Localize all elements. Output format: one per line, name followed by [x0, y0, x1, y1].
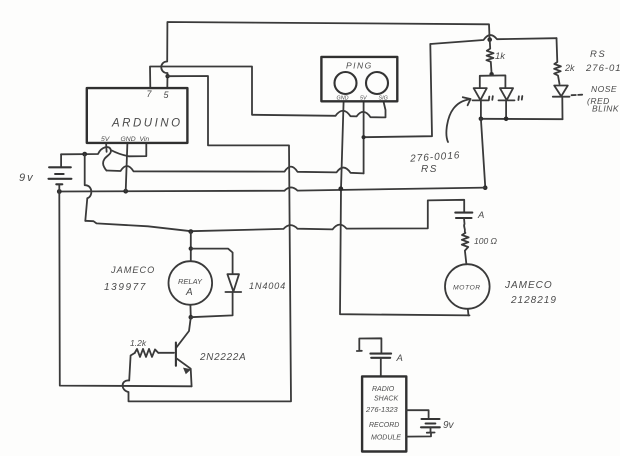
svg-text:NOSE: NOSE [591, 84, 617, 94]
wire: record module antenna stub bracket [357, 338, 382, 352]
svg-text:A: A [396, 353, 403, 364]
svg-text:JAMECO: JAMECO [504, 280, 553, 291]
svg-text:100 Ω: 100 Ω [474, 236, 498, 246]
node: relay/diode top dot [189, 246, 193, 250]
svg-text:RELAY: RELAY [178, 277, 203, 286]
wire: battery plus branch down with hop loop to relay feed rail [85, 154, 92, 221]
svg-text:BLINK: BLINK [592, 104, 619, 114]
wire: pin5 stub right-down-around to 1.2k resistor (base drive) [123, 76, 291, 401]
node: pin5 junction dot [165, 74, 169, 78]
svg-text:JAMECO: JAMECO [110, 265, 155, 275]
svg-text:SIG: SIG [379, 96, 388, 102]
capacitor C2 A (module) [370, 354, 391, 358]
node: cathode bus dots [479, 117, 484, 122]
svg-text:RS: RS [590, 49, 606, 60]
diode D4 1N4004 [225, 274, 241, 292]
relay feed rail across to motor cap corner [85, 200, 464, 231]
svg-text:276-1323: 276-1323 [365, 405, 399, 414]
5V rail (battery plus net) [107, 166, 364, 173]
resistor R4 100 ohm [462, 233, 469, 264]
wire: upper rail to 1k and 2k with hop loop [430, 35, 556, 44]
svg-text:1N4004: 1N4004 [249, 281, 286, 291]
svg-text:A: A [477, 210, 484, 221]
svg-text:2128219: 2128219 [510, 295, 557, 306]
svg-text:RADIO: RADIO [372, 386, 395, 393]
svg-text:1k: 1k [495, 51, 506, 62]
wire: relay top feed [190, 232, 192, 262]
wire: Arduino pin 7 across and down to PING SIG [150, 67, 386, 118]
svg-text:2k: 2k [564, 63, 575, 73]
label: D2 tick marks [518, 96, 522, 100]
wire: module bottom to battery minus [406, 433, 431, 437]
wire: PING 5V pin lead and node [364, 44, 432, 173]
svg-text:9v: 9v [443, 420, 455, 431]
svg-text:139977: 139977 [104, 282, 147, 293]
svg-text:A: A [185, 287, 193, 298]
motor M1 circle [445, 264, 490, 309]
resistor R1 1k [486, 40, 493, 74]
wire: Arduino GND pin lead down to ground rail [126, 143, 128, 191]
relay K1 circle [169, 261, 213, 305]
svg-text:GND: GND [337, 96, 349, 102]
node: ground rail right end blob [483, 185, 488, 190]
Arduino U1 box [87, 88, 188, 143]
resistor R2 2k [554, 38, 561, 84]
capacitor C1 A (motor) [455, 213, 472, 218]
node: battery minus dot [57, 189, 62, 194]
PING right eye circle [366, 72, 388, 94]
svg-text:SHACK: SHACK [374, 396, 398, 403]
wire: motor bottom lead [467, 309, 470, 316]
PING box [321, 57, 397, 101]
node: battery plus dot [82, 152, 87, 157]
wire: LED cathode bus [481, 118, 563, 120]
svg-text:Vin: Vin [140, 136, 150, 143]
wire: Arduino Vin pin lead [129, 143, 147, 156]
LED D1 (276-0016) [473, 88, 489, 119]
svg-text:5V: 5V [101, 136, 111, 143]
wire: Arduino pin 5 up to top rail, across, down to 1k rail [161, 22, 489, 88]
wire: top bar over to 1N4004 [191, 249, 233, 274]
svg-text:2N2222A: 2N2222A [199, 352, 246, 363]
annotation arrow to D1 [446, 99, 470, 142]
resistor R3 1.2k [135, 349, 159, 357]
node: 1k bottom junction dot [489, 72, 493, 76]
node: PING GND dot [338, 186, 343, 191]
svg-text:ARDUINO: ARDUINO [111, 118, 183, 130]
svg-text:1.2k: 1.2k [130, 338, 147, 348]
node: rail/1k junction blob [487, 37, 492, 42]
battery B2 9V [422, 418, 440, 420]
svg-text:MODULE: MODULE [371, 435, 401, 442]
PING left eye circle [335, 72, 357, 94]
wire: battery plus top wire and join blob [61, 147, 129, 171]
LED D3 nose [553, 86, 570, 120]
LED D2 [499, 88, 515, 119]
svg-text:9v: 9v [19, 172, 35, 184]
wire: relay bottom lead [189, 305, 191, 317]
wire: Q1 emitter with arrow [177, 359, 192, 387]
battery B1 9V [60, 154, 62, 167]
record module U2 box [362, 376, 406, 451]
svg-text:GND: GND [121, 136, 136, 143]
label: dashes at nose LED [572, 94, 583, 97]
svg-text:MOTOR: MOTOR [453, 285, 481, 292]
svg-text:RECORD: RECORD [369, 422, 399, 429]
wire: collector from relay bottom [177, 317, 191, 347]
wire: Arduino 5V pin lead [105, 143, 108, 152]
wire: bottom bar to 1N4004 cathode [191, 292, 233, 317]
label: D1 tick marks [489, 96, 493, 100]
wire: cathode bus down to ground rail [481, 119, 485, 188]
wire: Q1 base [158, 352, 174, 354]
node: PING 5V junction dot [362, 135, 366, 139]
wire: bracket feeding both indicator LEDs [480, 75, 506, 88]
node: relay bottom dot [189, 315, 194, 320]
transistor Q1 2N2222A bar [175, 343, 177, 366]
wire: module to 9V battery top [406, 410, 428, 417]
svg-text:PING: PING [346, 61, 373, 71]
wire: PING GND down to ground rail and motor return [340, 102, 470, 316]
node: relay top rail dot [188, 229, 193, 234]
node: Arduino GND dot [123, 189, 128, 194]
svg-text:276-016: 276-016 [585, 63, 620, 74]
wire: left ground rail down and across to emitter [59, 192, 191, 387]
svg-text:RS: RS [421, 164, 438, 175]
ground rail (battery minus / GND net) [59, 187, 485, 191]
